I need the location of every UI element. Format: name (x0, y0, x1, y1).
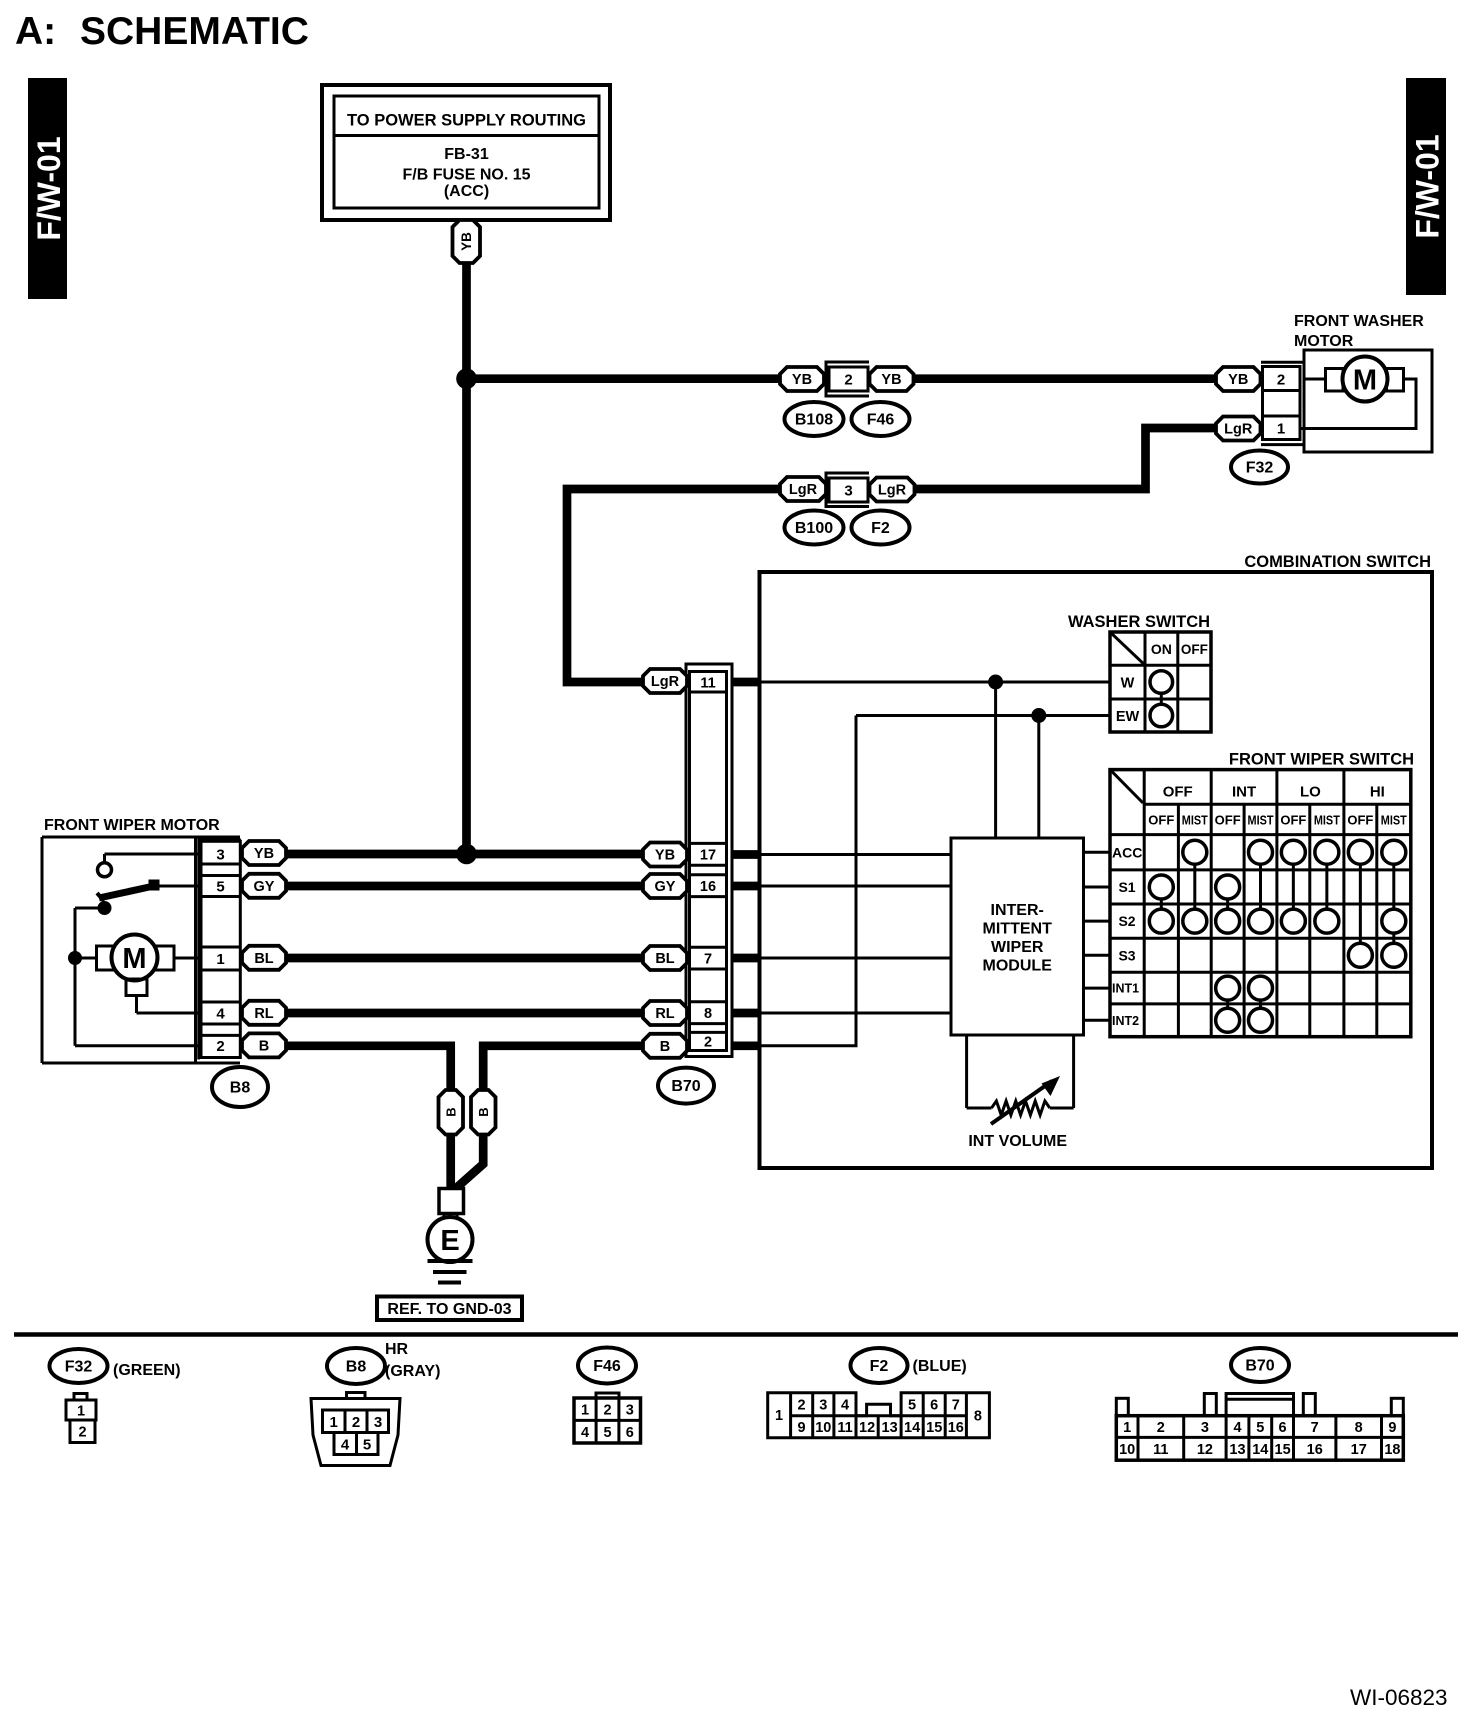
svg-text:HI: HI (1370, 784, 1385, 801)
svg-text:E: E (440, 1225, 459, 1257)
svg-text:LgR: LgR (878, 483, 907, 499)
svg-text:3: 3 (216, 846, 224, 863)
svg-text:S1: S1 (1118, 879, 1135, 895)
svg-text:GY: GY (655, 879, 676, 895)
svg-text:F32: F32 (65, 1359, 93, 1376)
svg-text:YB: YB (881, 372, 901, 388)
svg-text:4: 4 (1233, 1420, 1241, 1436)
svg-text:F/B FUSE NO. 15: F/B FUSE NO. 15 (402, 167, 530, 184)
svg-text:15: 15 (926, 1420, 942, 1436)
svg-text:B: B (443, 1107, 458, 1116)
svg-text:18: 18 (1384, 1442, 1400, 1458)
svg-text:F2: F2 (871, 520, 890, 537)
svg-text:14: 14 (904, 1420, 920, 1436)
svg-text:5: 5 (1256, 1420, 1264, 1436)
svg-text:17: 17 (1351, 1442, 1367, 1458)
svg-text:4: 4 (581, 1425, 589, 1441)
svg-text:INT1: INT1 (1112, 982, 1139, 996)
svg-text:(BLUE): (BLUE) (913, 1358, 967, 1375)
svg-text:8: 8 (704, 1006, 712, 1022)
svg-text:5: 5 (216, 878, 224, 895)
svg-text:6: 6 (626, 1425, 634, 1441)
svg-text:FB-31: FB-31 (444, 146, 489, 163)
svg-text:8: 8 (974, 1409, 982, 1425)
svg-text:GY: GY (254, 879, 275, 895)
svg-text:COMBINATION SWITCH: COMBINATION SWITCH (1244, 553, 1431, 571)
svg-text:15: 15 (1275, 1442, 1291, 1458)
svg-text:MIST: MIST (1314, 813, 1340, 828)
svg-text:LgR: LgR (789, 482, 818, 498)
svg-text:6: 6 (1279, 1420, 1287, 1436)
svg-text:LgR: LgR (1224, 422, 1253, 438)
svg-text:1: 1 (581, 1403, 589, 1419)
svg-text:EW: EW (1116, 709, 1140, 725)
svg-text:W: W (1121, 676, 1135, 692)
svg-text:OFF: OFF (1347, 813, 1373, 828)
svg-text:2: 2 (1277, 372, 1285, 389)
svg-text:2: 2 (1157, 1420, 1165, 1436)
svg-text:MIST: MIST (1381, 813, 1407, 828)
svg-text:LgR: LgR (651, 674, 680, 690)
svg-text:REF. TO GND-03: REF. TO GND-03 (387, 1301, 511, 1318)
svg-text:1: 1 (1277, 421, 1285, 438)
svg-text:LO: LO (1300, 784, 1321, 801)
svg-text:B100: B100 (795, 520, 833, 537)
svg-text:12: 12 (1197, 1442, 1213, 1458)
svg-text:3: 3 (626, 1403, 634, 1419)
svg-text:F/W-01: F/W-01 (31, 136, 67, 240)
svg-text:YB: YB (655, 848, 675, 864)
svg-text:2: 2 (352, 1414, 360, 1431)
svg-text:2: 2 (78, 1425, 86, 1441)
svg-text:9: 9 (798, 1420, 806, 1436)
svg-text:S3: S3 (1118, 947, 1135, 963)
svg-text:7: 7 (704, 951, 712, 967)
svg-text:TO POWER SUPPLY ROUTING: TO POWER SUPPLY ROUTING (347, 112, 586, 130)
svg-text:16: 16 (700, 879, 716, 895)
svg-text:F32: F32 (1246, 460, 1274, 477)
svg-text:INT2: INT2 (1112, 1014, 1139, 1028)
svg-text:F46: F46 (593, 1358, 621, 1375)
svg-text:(GRAY): (GRAY) (385, 1363, 440, 1380)
svg-text:F46: F46 (867, 412, 895, 429)
svg-text:1: 1 (216, 951, 224, 968)
svg-text:B70: B70 (1245, 1358, 1274, 1375)
svg-text:SCHEMATIC: SCHEMATIC (80, 10, 309, 53)
svg-text:1: 1 (330, 1414, 338, 1431)
svg-text:B8: B8 (230, 1080, 251, 1097)
svg-text:MITTENT: MITTENT (983, 921, 1053, 938)
svg-text:OFF: OFF (1280, 813, 1306, 828)
svg-text:5: 5 (908, 1398, 916, 1414)
svg-text:BL: BL (254, 951, 273, 967)
svg-text:INTER-: INTER- (991, 902, 1044, 919)
svg-text:BL: BL (655, 951, 674, 967)
svg-text:FRONT WASHER: FRONT WASHER (1294, 313, 1424, 330)
svg-text:4: 4 (216, 1005, 225, 1022)
svg-text:6: 6 (930, 1398, 938, 1414)
svg-text:OFF: OFF (1181, 642, 1208, 657)
svg-text:B8: B8 (346, 1359, 367, 1376)
svg-text:13: 13 (1229, 1442, 1245, 1458)
svg-text:ON: ON (1151, 641, 1172, 657)
svg-text:M: M (1353, 365, 1377, 397)
svg-text:YB: YB (254, 846, 274, 862)
svg-text:YB: YB (792, 372, 812, 388)
svg-text:12: 12 (859, 1420, 875, 1436)
svg-text:13: 13 (882, 1420, 898, 1436)
svg-text:M: M (122, 943, 146, 975)
svg-text:16: 16 (948, 1420, 964, 1436)
svg-text:OFF: OFF (1215, 813, 1241, 828)
svg-text:3: 3 (844, 483, 852, 500)
svg-text:YB: YB (459, 232, 474, 251)
svg-text:WI-06823: WI-06823 (1350, 1685, 1448, 1710)
svg-text:F2: F2 (870, 1358, 889, 1375)
svg-text:HR: HR (385, 1341, 409, 1358)
svg-text:WASHER SWITCH: WASHER SWITCH (1068, 613, 1210, 631)
svg-text:MOTOR: MOTOR (1294, 333, 1354, 350)
svg-text:1: 1 (775, 1408, 783, 1424)
svg-text:B108: B108 (795, 412, 833, 429)
svg-text:3: 3 (1201, 1420, 1209, 1436)
svg-text:7: 7 (1311, 1420, 1319, 1436)
svg-text:4: 4 (341, 1437, 350, 1454)
svg-text:S2: S2 (1118, 913, 1135, 929)
svg-text:10: 10 (1119, 1442, 1135, 1458)
svg-text:MIST: MIST (1182, 813, 1208, 828)
svg-text:F/W-01: F/W-01 (1410, 134, 1446, 238)
svg-text:(GREEN): (GREEN) (113, 1362, 181, 1379)
svg-text:16: 16 (1307, 1442, 1323, 1458)
svg-text:YB: YB (1228, 372, 1248, 388)
svg-text:3: 3 (819, 1398, 827, 1414)
svg-text:11: 11 (837, 1420, 852, 1436)
svg-text:INT: INT (1232, 784, 1256, 801)
svg-text:14: 14 (1252, 1442, 1268, 1458)
svg-text:B: B (660, 1039, 670, 1055)
svg-text:5: 5 (603, 1425, 611, 1441)
svg-text:WIPER: WIPER (991, 939, 1044, 956)
svg-text:11: 11 (700, 675, 715, 691)
svg-text:OFF: OFF (1163, 784, 1193, 801)
svg-text:7: 7 (952, 1398, 960, 1414)
svg-text:2: 2 (704, 1035, 712, 1051)
svg-text:2: 2 (798, 1398, 806, 1414)
svg-text:B: B (259, 1039, 269, 1055)
svg-text:FRONT WIPER SWITCH: FRONT WIPER SWITCH (1229, 751, 1414, 769)
svg-text:OFF: OFF (1148, 813, 1174, 828)
svg-text:1: 1 (77, 1404, 85, 1420)
svg-text:MODULE: MODULE (983, 958, 1053, 975)
svg-text:2: 2 (603, 1403, 611, 1419)
svg-text:2: 2 (216, 1038, 224, 1055)
svg-text:17: 17 (700, 848, 716, 864)
svg-text:4: 4 (841, 1398, 849, 1414)
svg-text:2: 2 (844, 372, 852, 389)
svg-text:B: B (476, 1107, 491, 1116)
svg-text:INT VOLUME: INT VOLUME (968, 1133, 1067, 1150)
svg-text:3: 3 (374, 1414, 382, 1431)
svg-text:RL: RL (655, 1006, 674, 1022)
svg-text:1: 1 (1123, 1420, 1131, 1436)
svg-text:(ACC): (ACC) (444, 183, 489, 200)
svg-text:10: 10 (815, 1420, 831, 1436)
svg-text:9: 9 (1388, 1420, 1396, 1436)
svg-text:B70: B70 (671, 1078, 700, 1095)
svg-text:5: 5 (363, 1437, 371, 1454)
svg-text:11: 11 (1153, 1442, 1168, 1458)
svg-text:8: 8 (1355, 1420, 1363, 1436)
svg-text:MIST: MIST (1248, 813, 1274, 828)
svg-text:ACC: ACC (1112, 844, 1142, 860)
svg-text:FRONT WIPER MOTOR: FRONT WIPER MOTOR (44, 817, 220, 834)
svg-text:RL: RL (254, 1006, 273, 1022)
svg-text:A:: A: (15, 10, 56, 53)
